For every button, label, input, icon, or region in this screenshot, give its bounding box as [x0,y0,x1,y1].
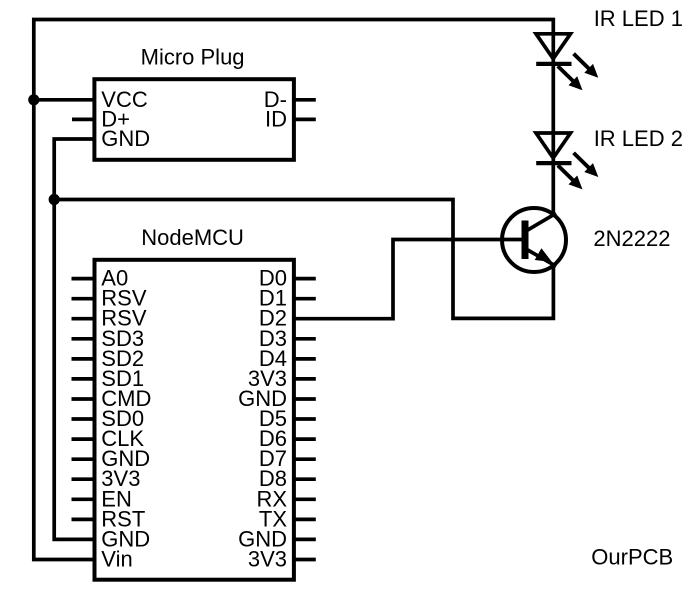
svg-text:NodeMCU: NodeMCU [141,225,244,250]
IC U2 NodeMCU box [95,260,294,580]
LED D2 IR LED 2 triangle [536,133,571,158]
pin TX (NodeMCU right 13) [259,506,316,531]
junction GND node [49,194,60,205]
wire GND to transistor emitter [54,200,553,319]
LED D2 cathode bar [536,161,571,165]
svg-text:3V3: 3V3 [248,547,287,572]
pin D7 (NodeMCU right 10) [259,446,316,471]
svg-text:IR LED 1: IR LED 1 [594,6,683,31]
pin SD1 (NodeMCU left 6) [72,366,145,391]
pin SD0 (NodeMCU left 8) [72,406,145,431]
junction VCC node [28,94,39,105]
LED D1 IR LED 1 triangle [536,34,571,59]
pin D8 (NodeMCU right 11) [259,466,316,491]
pin GND (NodeMCU right 14) [238,526,316,551]
transistor Q1 collector line [526,213,556,231]
pin D5 (NodeMCU right 8) [259,406,316,431]
svg-text:ID: ID [265,106,287,131]
pin CMD (NodeMCU left 7) [72,386,152,411]
pin GND (NodeMCU left 10) [72,446,151,471]
LED D1 emission arrow 2 [558,66,583,90]
wire GND: Micro Plug GND down to NodeMCU GND pin [54,139,95,539]
wire VCC: from Vin pin left, up, across top, down to LED1 and collector [34,20,554,560]
pin D3 (NodeMCU right 4) [259,326,316,351]
pin A0 (NodeMCU left 1) [72,266,129,291]
pin 3V3 (NodeMCU right 6) [248,366,316,391]
pin RSV (NodeMCU left 3) [72,306,147,331]
pin SD2 (NodeMCU left 5) [72,346,145,371]
pin D1 (NodeMCU right 2) [259,286,316,311]
LED D1 emission arrow 1 [574,54,599,78]
transistor Q1 emitter line [526,249,556,266]
svg-text:IR LED 2: IR LED 2 [594,126,683,151]
svg-text:GND: GND [101,126,150,151]
pin RX (NodeMCU right 12) [256,486,315,511]
pin 3V3 (NodeMCU left 11) [72,466,141,491]
wire D2 to transistor base [294,240,522,319]
LED D1 cathode bar [536,62,571,66]
transistor Q1 2N2222 circle [502,208,566,272]
pin RSV (NodeMCU left 2) [72,286,147,311]
wire VCC stub to Micro Plug VCC pin [34,98,95,102]
IC U1 Micro Plug box [94,79,294,160]
pin D2 (NodeMCU right 3) [259,306,287,331]
transistor Q1 base bar [522,221,529,260]
pin D- (Micro Plug right) [264,87,316,112]
svg-text:Micro Plug: Micro Plug [141,44,245,69]
pin GND (NodeMCU left 14) [101,526,150,551]
pin VCC (Micro Plug left) [101,87,148,112]
pin GND (Micro Plug left) [101,126,150,151]
pin 3V3 (NodeMCU right 15) [248,547,316,572]
pin D0 (NodeMCU right 1) [259,266,316,291]
svg-text:Vin: Vin [101,547,132,572]
svg-text:2N2222: 2N2222 [593,226,670,251]
pin D4 (NodeMCU right 5) [259,346,316,371]
svg-text:OurPCB: OurPCB [591,545,673,570]
pin CLK (NodeMCU left 9) [72,426,145,451]
pin ID (Micro Plug right) [265,106,316,131]
transistor Q1 emitter arrow [535,248,552,262]
pin D+ (Micro Plug left) [72,106,130,131]
pin Vin (NodeMCU left 15) [101,547,132,572]
pin GND (NodeMCU right 7) [238,386,316,411]
pin SD3 (NodeMCU left 4) [72,326,145,351]
LED D2 emission arrow 1 [574,153,599,177]
pin RST (NodeMCU left 13) [72,506,146,531]
pin D6 (NodeMCU right 9) [259,426,316,451]
pin EN (NodeMCU left 12) [72,486,132,511]
LED D2 emission arrow 2 [558,165,583,189]
